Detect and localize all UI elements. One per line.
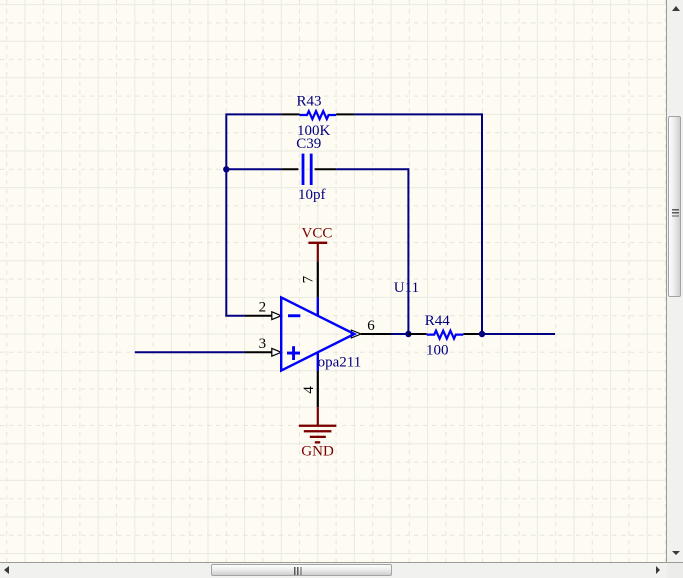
capacitor C39 bbox=[281, 154, 336, 185]
node: junction of C39 row on left vertical bbox=[223, 166, 229, 172]
pin number 7 bbox=[301, 275, 317, 283]
label C39 value 10pf bbox=[298, 187, 326, 203]
svg-text:7: 7 bbox=[301, 275, 317, 283]
svg-text:VCC: VCC bbox=[302, 226, 333, 242]
wire: top feedback horizontal (right of R43) bbox=[354, 113, 482, 115]
svg-text:R43: R43 bbox=[297, 94, 322, 110]
svg-text:R44: R44 bbox=[425, 313, 451, 329]
svg-text:2: 2 bbox=[259, 299, 267, 315]
pin number 4 bbox=[301, 386, 317, 394]
vertical scrollbar bbox=[666, 0, 667, 562]
wire: top feedback horizontal (left of R43) bbox=[225, 113, 281, 115]
label R43 designator bbox=[297, 94, 322, 110]
svg-text:6: 6 bbox=[367, 318, 375, 334]
label R44 designator bbox=[425, 313, 451, 329]
pin number 3 bbox=[259, 336, 267, 352]
label C39 designator bbox=[296, 136, 321, 152]
svg-text:C39: C39 bbox=[296, 136, 321, 152]
svg-text:opa211: opa211 bbox=[318, 355, 362, 371]
label R44 value 100 bbox=[426, 343, 449, 359]
wire: feedback right vertical bbox=[481, 113, 483, 334]
wire: pin 6 to output node bbox=[391, 333, 408, 335]
label GND net bbox=[301, 444, 334, 460]
svg-text:U11: U11 bbox=[394, 280, 419, 296]
wire: output wire to the right bbox=[482, 333, 555, 335]
wire: C39 row left segment bbox=[226, 168, 281, 170]
svg-text:4: 4 bbox=[301, 386, 317, 394]
label R43 value 100K bbox=[297, 123, 331, 139]
wire: feedback left vertical bbox=[225, 115, 227, 315]
corner bbox=[667, 563, 683, 578]
horizontal scrollbar bbox=[0, 562, 683, 563]
wire: vertical drop from C39 to output node bbox=[407, 168, 409, 334]
pin number 2 bbox=[259, 299, 267, 315]
label VCC net bbox=[302, 226, 333, 242]
op-amp U11 bbox=[245, 261, 391, 407]
node: junction at feedback right vertical bbox=[479, 331, 485, 337]
wire: pin 2 stub from left vertical bbox=[225, 315, 244, 317]
resistor R43 bbox=[281, 111, 354, 119]
svg-text:100: 100 bbox=[426, 343, 449, 359]
power VCC bbox=[308, 242, 327, 262]
label opa211 part name bbox=[318, 355, 362, 371]
ground GND bbox=[299, 407, 336, 443]
svg-text:GND: GND bbox=[301, 444, 334, 460]
wire: C39 row right segment bbox=[336, 168, 408, 170]
node: output junction at U11 drop bbox=[405, 331, 411, 337]
pin number 6 bbox=[367, 318, 375, 334]
svg-text:3: 3 bbox=[259, 336, 267, 352]
resistor R44 bbox=[408, 331, 482, 339]
label U11 designator bbox=[394, 280, 419, 296]
wire: input wire to pin 3 bbox=[135, 351, 245, 353]
svg-text:10pf: 10pf bbox=[298, 187, 326, 203]
